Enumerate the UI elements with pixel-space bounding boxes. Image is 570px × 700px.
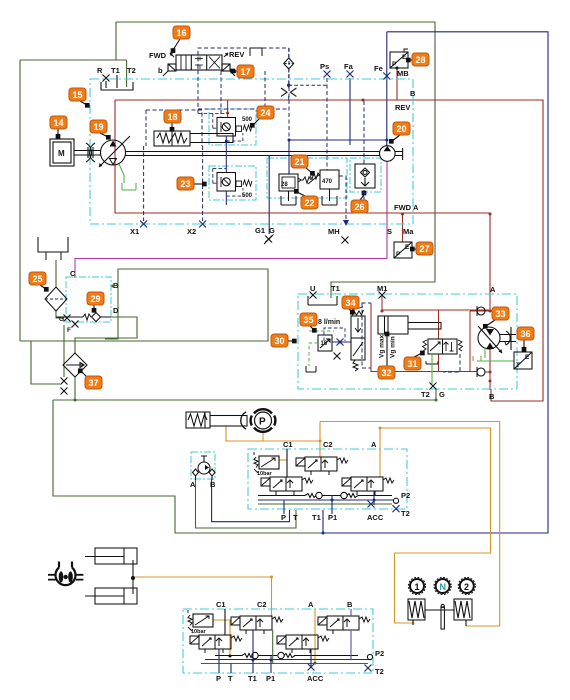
- svg-text:1: 1: [415, 582, 420, 592]
- svg-text:C2: C2: [257, 600, 267, 609]
- check valve block 26: [355, 164, 375, 188]
- port symbol G: [265, 236, 272, 243]
- pressure switch MB 28: [390, 49, 408, 68]
- svg-text:C: C: [70, 269, 76, 278]
- tag 18: [164, 110, 181, 123]
- svg-text:FWD: FWD: [149, 51, 167, 60]
- svg-text:b: b: [158, 66, 163, 75]
- svg-text:B: B: [347, 600, 353, 609]
- wire navy steering unit lines: [212, 479, 290, 522]
- svg-text:14: 14: [53, 118, 63, 128]
- port R breather: [103, 75, 110, 82]
- tag 23: [177, 177, 194, 190]
- tag 29: [87, 292, 104, 305]
- mid valve C1: [261, 477, 313, 495]
- svg-text:27: 27: [419, 244, 429, 254]
- tag 16: [173, 26, 190, 39]
- pilot valve FWD REV 16 17: [163, 48, 262, 76]
- svg-text:MH: MH: [328, 227, 340, 236]
- tag 26: [351, 200, 368, 213]
- tag 34: [342, 296, 359, 309]
- wire red REV-B circuit: [115, 68, 543, 401]
- svg-text:B: B: [489, 392, 495, 401]
- pressure compensator cartridge 23: [217, 173, 252, 206]
- tag 36: [517, 327, 534, 340]
- svg-text:G1: G1: [255, 226, 265, 235]
- svg-text:A: A: [490, 285, 496, 294]
- port marks F G on filter block: [64, 315, 71, 322]
- svg-text:T: T: [516, 362, 520, 369]
- svg-text:T1: T1: [248, 674, 257, 683]
- svg-text:E: E: [405, 244, 410, 251]
- filter 37: [63, 353, 87, 377]
- pilot dashes valve 24: [198, 113, 243, 141]
- enclosure filter block 25 29: [66, 277, 111, 322]
- svg-text:R: R: [97, 66, 103, 75]
- charge pump 20: [380, 146, 403, 162]
- svg-text:10bar: 10bar: [257, 471, 273, 477]
- svg-text:24: 24: [260, 108, 270, 118]
- svg-text:G: G: [269, 226, 275, 235]
- tag 17: [237, 65, 254, 78]
- svg-text:B: B: [410, 89, 416, 98]
- steering metering unit: [193, 456, 216, 480]
- bottom block port stubs: [219, 609, 351, 673]
- svg-text:T: T: [293, 513, 298, 522]
- electric motor M14: [50, 139, 101, 166]
- svg-text:16: 16: [176, 28, 186, 38]
- svg-text:X2: X2: [187, 227, 196, 236]
- svg-text:25: 25: [32, 274, 42, 284]
- displacement control valve 18: [154, 125, 233, 146]
- svg-text:T1: T1: [111, 66, 120, 75]
- svg-text:470: 470: [322, 179, 333, 185]
- gearbox shift actuator: [408, 599, 472, 629]
- wire magenta charge line: [75, 161, 387, 278]
- svg-text:21: 21: [294, 157, 304, 167]
- wire orange pilot supply: [135, 422, 500, 664]
- svg-text:M: M: [58, 149, 65, 158]
- tag 21: [291, 155, 308, 168]
- enclosure bottom valve block: [183, 609, 373, 673]
- tag 35: [300, 313, 317, 326]
- tag 30: [271, 334, 288, 347]
- tag 32: [378, 366, 395, 379]
- brake release cylinder: [186, 412, 247, 428]
- relief valve 28bar: [279, 174, 311, 205]
- green dashed pilot around 35: [309, 331, 334, 366]
- steering cylinder bottom: [85, 588, 137, 604]
- svg-text:ACC: ACC: [367, 513, 384, 522]
- wire navy G drain: [268, 156, 270, 235]
- svg-text:T2: T2: [375, 667, 384, 676]
- wire navy main loop: [289, 32, 548, 533]
- svg-text:T1: T1: [331, 284, 340, 293]
- svg-text:20: 20: [396, 124, 406, 134]
- svg-text:35: 35: [303, 315, 313, 325]
- port symbols Ps Fa Fe: [324, 71, 331, 78]
- check valve bottom: [477, 367, 485, 377]
- bottom valve A: [277, 635, 329, 653]
- port P2 T2 bottom: [367, 654, 372, 659]
- svg-text:B: B: [210, 480, 216, 489]
- svg-text:31: 31: [407, 359, 417, 369]
- wire green steering drain: [53, 400, 326, 533]
- orifice and line to valve 34: [324, 328, 351, 342]
- svg-text:P: P: [281, 513, 286, 522]
- svg-text:G: G: [439, 390, 445, 399]
- pilot dashed lines motor box: [355, 303, 460, 372]
- steering cylinder link: [132, 560, 135, 594]
- check valve 29: [56, 303, 111, 322]
- bottom valve B: [318, 616, 370, 634]
- wire red motor-box internals: [371, 294, 490, 390]
- svg-text:P2: P2: [375, 649, 384, 658]
- servo valve 31: [423, 339, 463, 364]
- steering wheel: [48, 562, 83, 586]
- check valve top: [477, 306, 485, 316]
- svg-text:Fe: Fe: [374, 64, 383, 73]
- LABEL-LAYER: [59, 50, 496, 683]
- pressure compensator cartridge 24: [217, 118, 252, 173]
- check valve bottom bus 2: [278, 652, 295, 658]
- pilot dashed box around valve 16 17: [144, 48, 364, 221]
- svg-text:F: F: [67, 327, 71, 334]
- tank R T1 T2: [101, 75, 133, 90]
- relief valve mid block: [254, 452, 279, 473]
- steering pump P: [241, 409, 276, 432]
- svg-text:2: 2: [464, 582, 469, 592]
- svg-text:34: 34: [345, 298, 355, 308]
- tag 25: [29, 272, 46, 285]
- tag 19: [90, 120, 107, 133]
- svg-text:G: G: [59, 316, 64, 323]
- svg-text:Fa: Fa: [344, 62, 354, 71]
- enclosure valve 24: [209, 109, 256, 145]
- svg-text:T2: T2: [421, 390, 430, 399]
- svg-text:19: 19: [93, 122, 103, 132]
- svg-text:P: P: [259, 417, 266, 428]
- bottom valve C2: [231, 616, 283, 634]
- svg-text:U: U: [310, 284, 315, 293]
- svg-text:P2: P2: [401, 491, 410, 500]
- port symbol MH: [342, 237, 349, 244]
- tag 37: [85, 376, 102, 389]
- mid valve C2: [296, 457, 348, 475]
- tag 14: [50, 116, 67, 129]
- svg-text:A: A: [371, 440, 377, 449]
- svg-text:P: P: [396, 251, 401, 258]
- tank above filter 25: [38, 237, 68, 260]
- port P2 T2 mid: [393, 498, 398, 503]
- pilot dashed arrow MH: [343, 220, 349, 226]
- svg-text:29: 29: [90, 294, 100, 304]
- svg-text:E: E: [525, 354, 530, 361]
- tag 20: [393, 122, 410, 135]
- enclosure valve 26: [350, 158, 381, 192]
- svg-text:10bar: 10bar: [191, 629, 207, 635]
- svg-text:Ps: Ps: [320, 62, 329, 71]
- COMPONENT-LAYER: [66, 79, 517, 673]
- svg-text:Vg min: Vg min: [390, 336, 397, 358]
- relief valve bottom block: [188, 610, 213, 631]
- enclosure valve 23: [209, 166, 256, 200]
- port M1: [379, 292, 386, 299]
- port marks X X near 37: [61, 378, 68, 385]
- check valve mid bus 1: [305, 492, 322, 498]
- port U: [310, 292, 317, 299]
- wire green supply loop top: [20, 22, 435, 341]
- tag 31: [404, 357, 421, 370]
- steering cylinder top: [85, 548, 137, 564]
- svg-text:N: N: [440, 582, 447, 592]
- svg-text:M1: M1: [377, 284, 387, 293]
- svg-text:A: A: [308, 600, 314, 609]
- svg-text:Vg max: Vg max: [379, 334, 386, 358]
- svg-text:32: 32: [381, 368, 391, 378]
- svg-text:FWD: FWD: [394, 203, 412, 212]
- enclosure valves 21 470: [267, 158, 347, 198]
- svg-text:Ma: Ma: [403, 227, 414, 236]
- enclosure travel motor assembly: [298, 294, 517, 389]
- junction dots: [385, 139, 388, 142]
- svg-text:A: A: [190, 480, 196, 489]
- svg-text:15: 15: [72, 90, 82, 100]
- drive shaft through line: [125, 152, 380, 156]
- tag pointer lines: [40, 39, 526, 378]
- svg-text:8 l/min: 8 l/min: [318, 319, 340, 326]
- svg-text:T1: T1: [312, 513, 321, 522]
- gearbox circles 1 N 2: [408, 577, 475, 594]
- shuttle check top: [284, 48, 327, 100]
- bottom block bus lines: [215, 655, 358, 657]
- svg-text:MB: MB: [397, 69, 409, 78]
- orifice symbol: [281, 88, 296, 96]
- mid block port stubs: [284, 449, 374, 514]
- tag 15: [69, 88, 86, 101]
- solenoid valve 34: [351, 307, 365, 371]
- svg-text:ACC: ACC: [307, 674, 324, 683]
- svg-text:D: D: [113, 306, 119, 315]
- svg-text:17: 17: [240, 67, 250, 77]
- svg-text:T2: T2: [127, 66, 136, 75]
- svg-text:500: 500: [242, 117, 253, 123]
- enclosure main pump assembly: [90, 79, 413, 224]
- svg-text:500: 500: [242, 193, 253, 199]
- wire green left network: [20, 260, 436, 400]
- svg-text:28: 28: [415, 55, 425, 65]
- filter 25: [45, 287, 67, 311]
- port symbols X1 X2: [140, 221, 147, 228]
- servo cylinder: [378, 316, 441, 334]
- svg-text:36: 36: [520, 329, 530, 339]
- svg-text:T: T: [228, 674, 233, 683]
- pressure switch Ma 27: [394, 242, 412, 258]
- valve 31 drain green to T2: [431, 354, 433, 384]
- svg-text:P: P: [216, 674, 221, 683]
- tag 24: [257, 106, 274, 119]
- port T2 G: [430, 383, 437, 390]
- svg-text:C2: C2: [323, 440, 333, 449]
- svg-text:22: 22: [304, 198, 314, 208]
- main pump 19: [99, 136, 130, 167]
- enclosure steering metering unit: [191, 452, 215, 479]
- tag 33: [492, 307, 509, 320]
- svg-text:23: 23: [180, 179, 190, 189]
- wire green gerotor A to T: [196, 479, 297, 528]
- tank bracket under T1: [308, 296, 337, 305]
- svg-text:30: 30: [274, 336, 284, 346]
- svg-text:P1: P1: [328, 513, 337, 522]
- svg-text:A: A: [413, 203, 419, 212]
- svg-text:37: 37: [88, 378, 98, 388]
- svg-text:18: 18: [167, 112, 177, 122]
- tag 27: [416, 242, 433, 255]
- bottom valve C1: [190, 635, 242, 653]
- relief valve 470: [308, 170, 339, 205]
- travel motor 33: [478, 326, 516, 353]
- svg-text:C1: C1: [216, 600, 226, 609]
- speed sensor 36: [514, 352, 532, 369]
- tag 22: [301, 196, 318, 209]
- check valve bottom bus 1: [242, 652, 258, 658]
- pilot dashes valve 23: [213, 168, 243, 196]
- check valve mid bus 2: [341, 492, 358, 498]
- svg-text:P1: P1: [266, 674, 275, 683]
- svg-text:T2: T2: [401, 509, 410, 518]
- motor case drain green: [473, 347, 514, 361]
- svg-text:16: 16: [321, 341, 328, 347]
- flow regulator 16 l/min 35: [318, 335, 332, 351]
- tag 28: [412, 53, 429, 66]
- svg-text:26: 26: [354, 202, 364, 212]
- tank bracket small: [306, 366, 316, 372]
- svg-text:REV: REV: [229, 50, 244, 59]
- svg-text:REV: REV: [395, 103, 410, 112]
- pump 19 case drain green: [119, 164, 136, 190]
- svg-text:28: 28: [281, 182, 288, 188]
- svg-text:S: S: [387, 227, 392, 236]
- mid block bus lines: [258, 495, 392, 497]
- enclosure mid valve block: [248, 449, 407, 509]
- mid valve A: [342, 477, 394, 495]
- svg-text:X1: X1: [130, 227, 139, 236]
- svg-text:C1: C1: [283, 440, 293, 449]
- svg-text:33: 33: [495, 309, 505, 319]
